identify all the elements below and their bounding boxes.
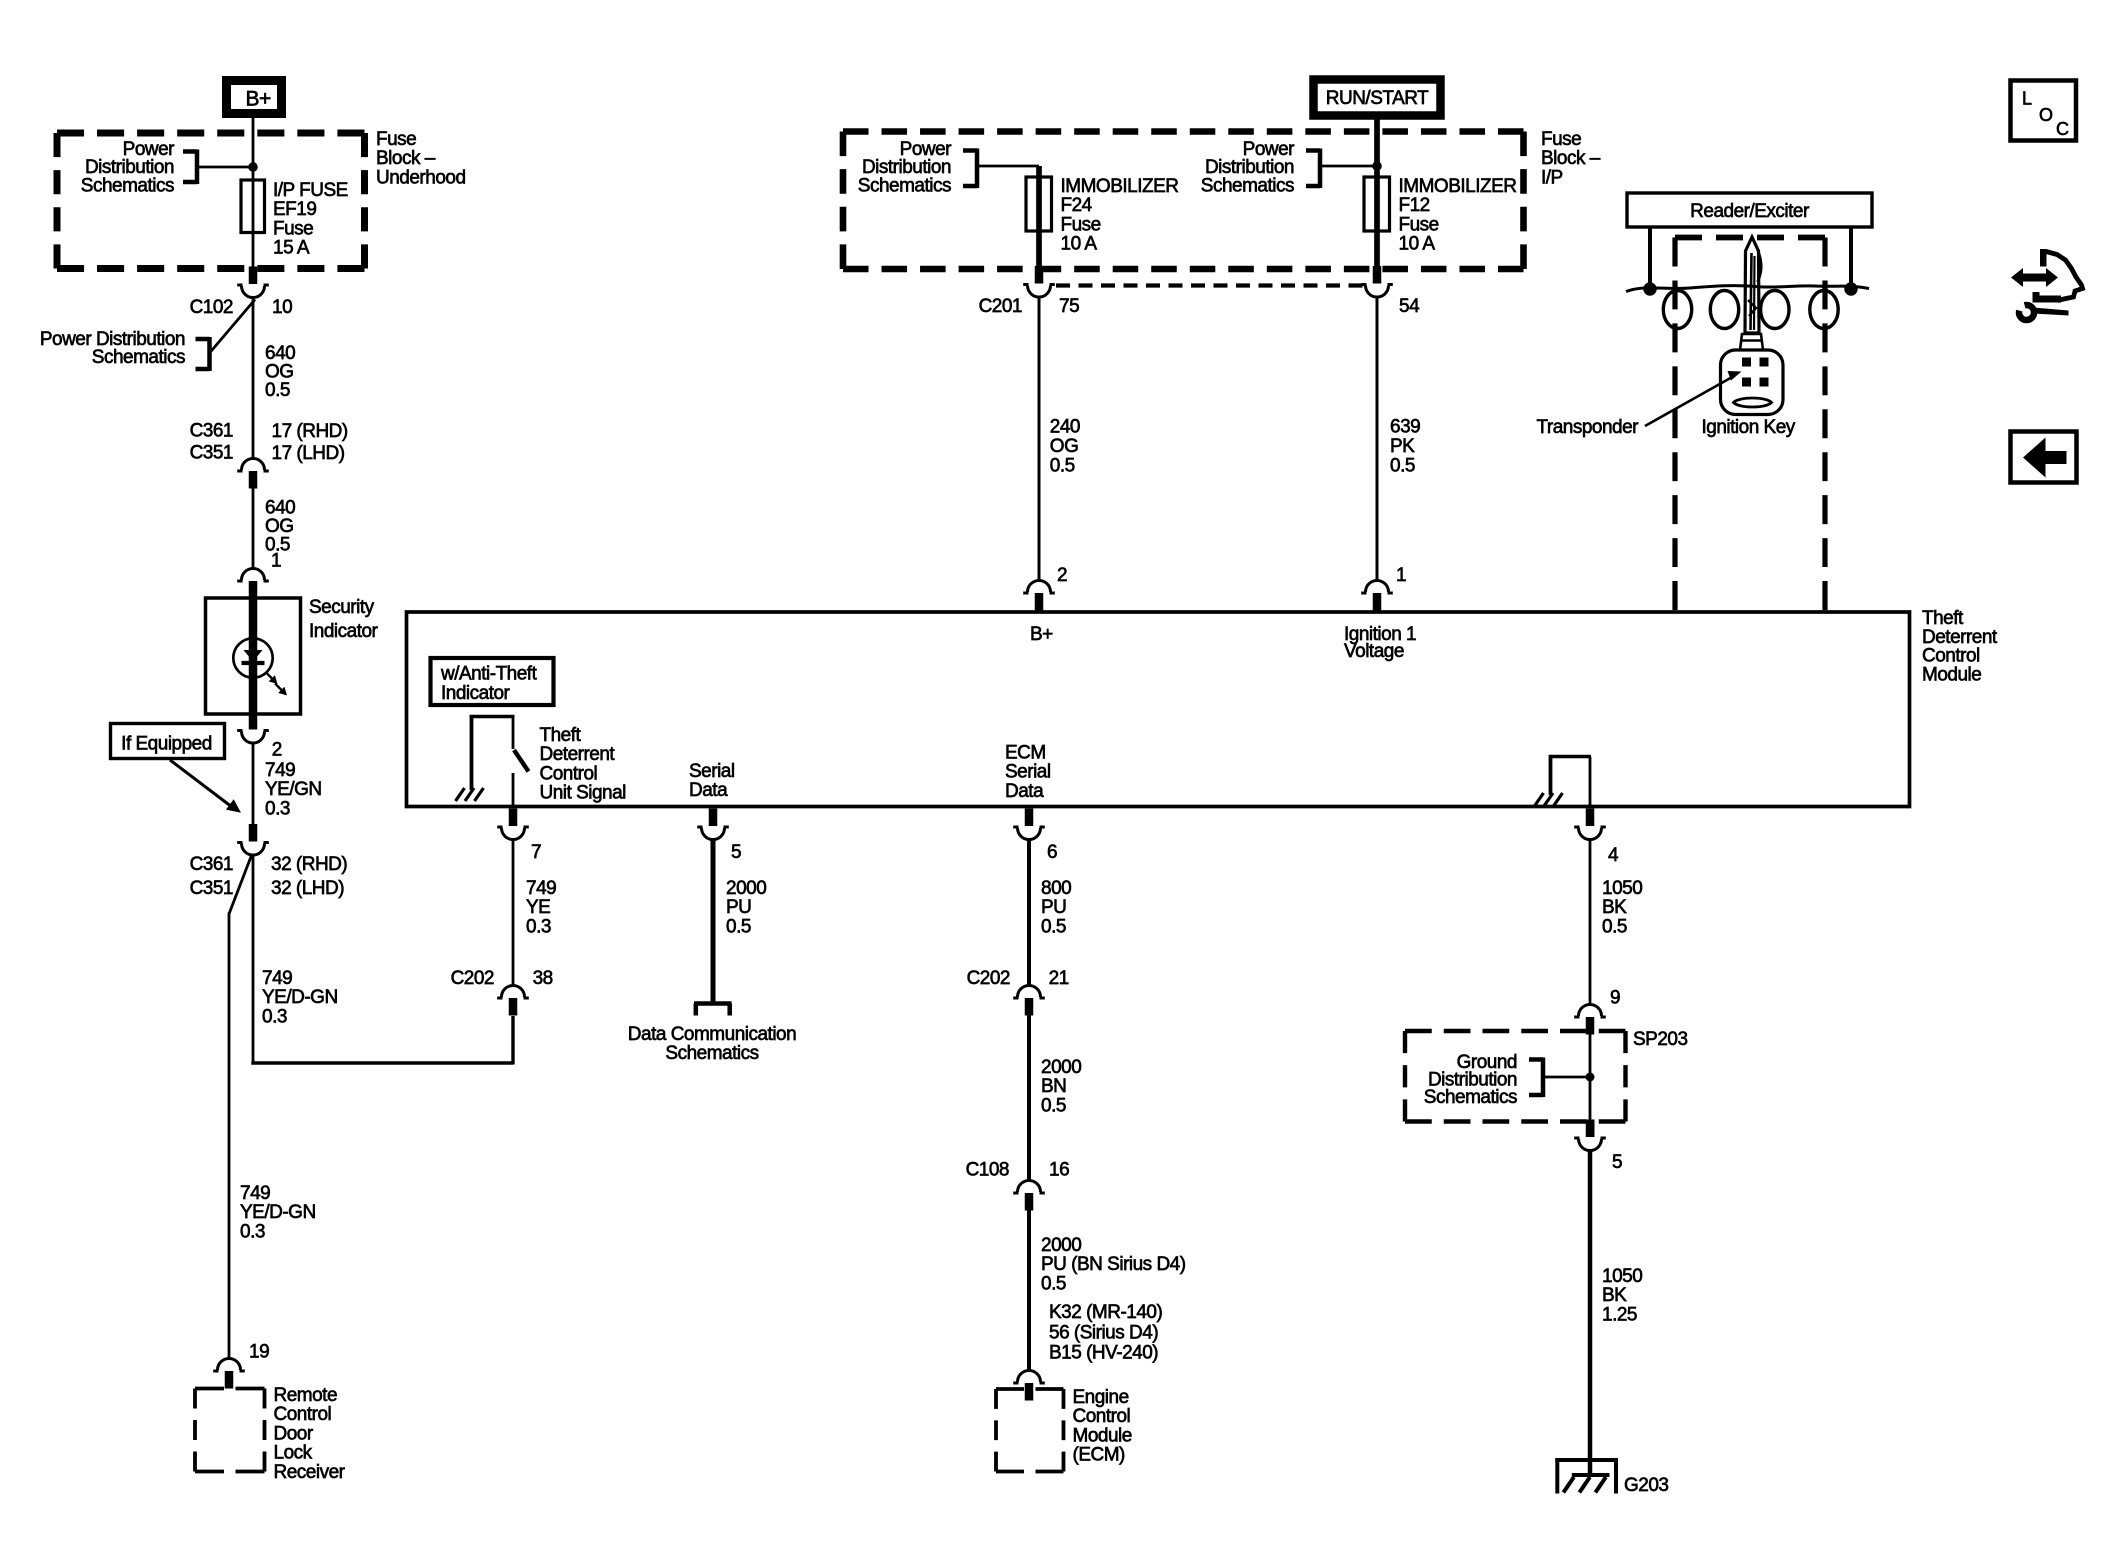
svg-text:5: 5: [731, 842, 741, 863]
svg-text:C351: C351: [190, 878, 233, 899]
svg-text:0.5: 0.5: [1041, 1273, 1066, 1294]
svg-text:F12: F12: [1399, 195, 1430, 216]
svg-text:Schematics: Schematics: [92, 347, 185, 368]
svg-text:240: 240: [1050, 417, 1080, 438]
svg-text:EF19: EF19: [273, 199, 316, 220]
svg-text:G203: G203: [1624, 1475, 1668, 1496]
svg-text:Block –: Block –: [376, 148, 436, 169]
svg-text:Serial: Serial: [1005, 762, 1051, 783]
svg-text:Voltage: Voltage: [1344, 641, 1404, 662]
svg-text:1: 1: [1396, 565, 1406, 586]
svg-text:Fuse: Fuse: [273, 218, 313, 239]
svg-text:2000: 2000: [726, 878, 766, 899]
svg-text:Ignition Key: Ignition Key: [1702, 417, 1796, 438]
svg-text:B+: B+: [1030, 624, 1053, 645]
svg-text:2: 2: [1057, 565, 1067, 586]
svg-text:1: 1: [271, 551, 281, 572]
svg-text:PU (BN Sirius D4): PU (BN Sirius D4): [1041, 1254, 1186, 1275]
svg-text:1050: 1050: [1602, 1266, 1642, 1287]
svg-text:9: 9: [1610, 988, 1620, 1009]
svg-text:2000: 2000: [1041, 1235, 1081, 1256]
svg-text:10 A: 10 A: [1061, 234, 1098, 255]
svg-text:0.5: 0.5: [726, 916, 751, 937]
svg-text:Unit Signal: Unit Signal: [540, 783, 626, 804]
svg-text:Remote: Remote: [274, 1385, 338, 1406]
svg-text:C202: C202: [967, 968, 1010, 989]
svg-text:B+: B+: [246, 88, 272, 111]
svg-text:IMMOBILIZER: IMMOBILIZER: [1061, 176, 1179, 197]
svg-text:21: 21: [1049, 968, 1069, 989]
svg-text:639: 639: [1390, 417, 1420, 438]
svg-text:Fuse: Fuse: [1061, 214, 1101, 235]
svg-text:19: 19: [249, 1342, 269, 1363]
svg-text:Underhood: Underhood: [376, 167, 466, 188]
svg-text:Fuse: Fuse: [376, 129, 416, 150]
svg-text:If Equipped: If Equipped: [121, 734, 212, 755]
svg-text:Fuse: Fuse: [1399, 214, 1439, 235]
svg-text:75: 75: [1059, 296, 1079, 317]
svg-text:17 (LHD): 17 (LHD): [272, 443, 345, 464]
svg-text:Data: Data: [689, 780, 728, 801]
svg-text:0.5: 0.5: [1041, 1095, 1066, 1116]
svg-text:749: 749: [262, 968, 292, 989]
svg-text:0.5: 0.5: [1041, 916, 1066, 937]
svg-text:Data: Data: [1005, 781, 1044, 802]
svg-text:Deterrent: Deterrent: [540, 744, 616, 765]
svg-text:BN: BN: [1041, 1076, 1066, 1097]
svg-text:YE: YE: [526, 897, 550, 918]
svg-text:0.3: 0.3: [526, 916, 551, 937]
svg-text:C361: C361: [190, 854, 233, 875]
svg-text:Block –: Block –: [1541, 148, 1601, 169]
svg-text:0.5: 0.5: [1602, 916, 1627, 937]
svg-text:38: 38: [533, 968, 553, 989]
svg-text:749: 749: [526, 878, 556, 899]
svg-text:5: 5: [1612, 1152, 1622, 1173]
svg-text:C351: C351: [190, 443, 233, 464]
svg-text:Indicator: Indicator: [309, 621, 379, 642]
svg-text:YE/D-GN: YE/D-GN: [240, 1202, 316, 1223]
svg-text:16: 16: [1049, 1160, 1069, 1181]
svg-text:K32 (MR-140): K32 (MR-140): [1049, 1302, 1162, 1323]
svg-text:749: 749: [265, 760, 295, 781]
svg-text:C361: C361: [190, 421, 233, 442]
svg-text:1.25: 1.25: [1602, 1304, 1637, 1325]
svg-text:749: 749: [240, 1183, 270, 1204]
svg-text:YE/GN: YE/GN: [265, 779, 322, 800]
svg-text:O: O: [2039, 105, 2053, 125]
svg-text:Schematics: Schematics: [858, 175, 951, 196]
svg-text:SP203: SP203: [1633, 1029, 1688, 1050]
svg-text:I/P: I/P: [1541, 167, 1563, 188]
svg-text:C202: C202: [451, 968, 494, 989]
svg-text:Lock: Lock: [274, 1443, 313, 1464]
svg-text:2000: 2000: [1041, 1057, 1081, 1078]
svg-text:Module: Module: [1922, 664, 1981, 685]
svg-text:0.3: 0.3: [262, 1006, 287, 1027]
svg-text:0.5: 0.5: [265, 380, 290, 401]
svg-text:Indicator: Indicator: [441, 683, 511, 704]
svg-text:C102: C102: [190, 297, 233, 318]
svg-text:800: 800: [1041, 878, 1071, 899]
svg-text:w/Anti-Theft: w/Anti-Theft: [440, 664, 538, 685]
svg-text:L: L: [2022, 89, 2032, 109]
svg-text:54: 54: [1399, 296, 1420, 317]
svg-text:ECM: ECM: [1005, 743, 1046, 764]
svg-text:7: 7: [531, 842, 541, 863]
svg-text:BK: BK: [1602, 897, 1627, 918]
svg-text:YE/D-GN: YE/D-GN: [262, 987, 338, 1008]
svg-text:Security: Security: [309, 597, 375, 618]
svg-text:Fuse: Fuse: [1541, 129, 1581, 150]
svg-text:C108: C108: [966, 1160, 1009, 1181]
svg-text:F24: F24: [1061, 195, 1093, 216]
svg-text:PU: PU: [726, 897, 751, 918]
svg-text:PK: PK: [1390, 436, 1415, 457]
svg-text:C: C: [2056, 119, 2069, 139]
svg-text:Control: Control: [274, 1404, 332, 1425]
svg-text:RUN/START: RUN/START: [1326, 88, 1429, 109]
svg-text:Control: Control: [1073, 1406, 1131, 1427]
svg-text:Serial: Serial: [689, 761, 735, 782]
svg-text:Reader/Exciter: Reader/Exciter: [1690, 201, 1810, 222]
svg-text:Module: Module: [1073, 1425, 1132, 1446]
svg-text:I/P FUSE: I/P FUSE: [273, 180, 348, 201]
svg-text:0.5: 0.5: [1050, 455, 1075, 476]
svg-text:1050: 1050: [1602, 878, 1642, 899]
svg-text:Control: Control: [540, 763, 598, 784]
svg-text:IMMOBILIZER: IMMOBILIZER: [1399, 176, 1517, 197]
svg-text:56 (Sirius D4): 56 (Sirius D4): [1049, 1322, 1158, 1343]
svg-text:Schematics: Schematics: [1424, 1087, 1517, 1108]
svg-text:Data Communication: Data Communication: [628, 1024, 796, 1045]
svg-text:BK: BK: [1602, 1285, 1627, 1306]
svg-text:Transponder: Transponder: [1536, 417, 1639, 438]
svg-text:C201: C201: [979, 296, 1022, 317]
svg-text:Theft: Theft: [540, 725, 582, 746]
svg-text:6: 6: [1047, 842, 1057, 863]
svg-text:4: 4: [1608, 845, 1619, 866]
svg-text:Engine: Engine: [1073, 1387, 1129, 1408]
svg-text:Schematics: Schematics: [1201, 175, 1294, 196]
svg-text:Schematics: Schematics: [81, 175, 174, 196]
svg-text:B15 (HV-240): B15 (HV-240): [1049, 1343, 1158, 1364]
svg-text:Door: Door: [274, 1423, 314, 1444]
svg-text:OG: OG: [1050, 436, 1079, 457]
svg-text:0.5: 0.5: [1390, 455, 1415, 476]
svg-text:0.3: 0.3: [240, 1221, 265, 1242]
svg-text:32 (LHD): 32 (LHD): [271, 878, 344, 899]
svg-text:Receiver: Receiver: [274, 1462, 346, 1483]
svg-text:2: 2: [272, 740, 282, 761]
svg-text:PU: PU: [1041, 897, 1066, 918]
svg-text:15 A: 15 A: [273, 238, 310, 259]
svg-text:32 (RHD): 32 (RHD): [271, 854, 347, 875]
svg-text:17 (RHD): 17 (RHD): [272, 421, 348, 442]
svg-text:(ECM): (ECM): [1073, 1445, 1126, 1466]
svg-text:10: 10: [272, 297, 292, 318]
svg-text:Schematics: Schematics: [665, 1043, 758, 1064]
svg-text:10 A: 10 A: [1399, 234, 1436, 255]
svg-text:0.3: 0.3: [265, 798, 290, 819]
